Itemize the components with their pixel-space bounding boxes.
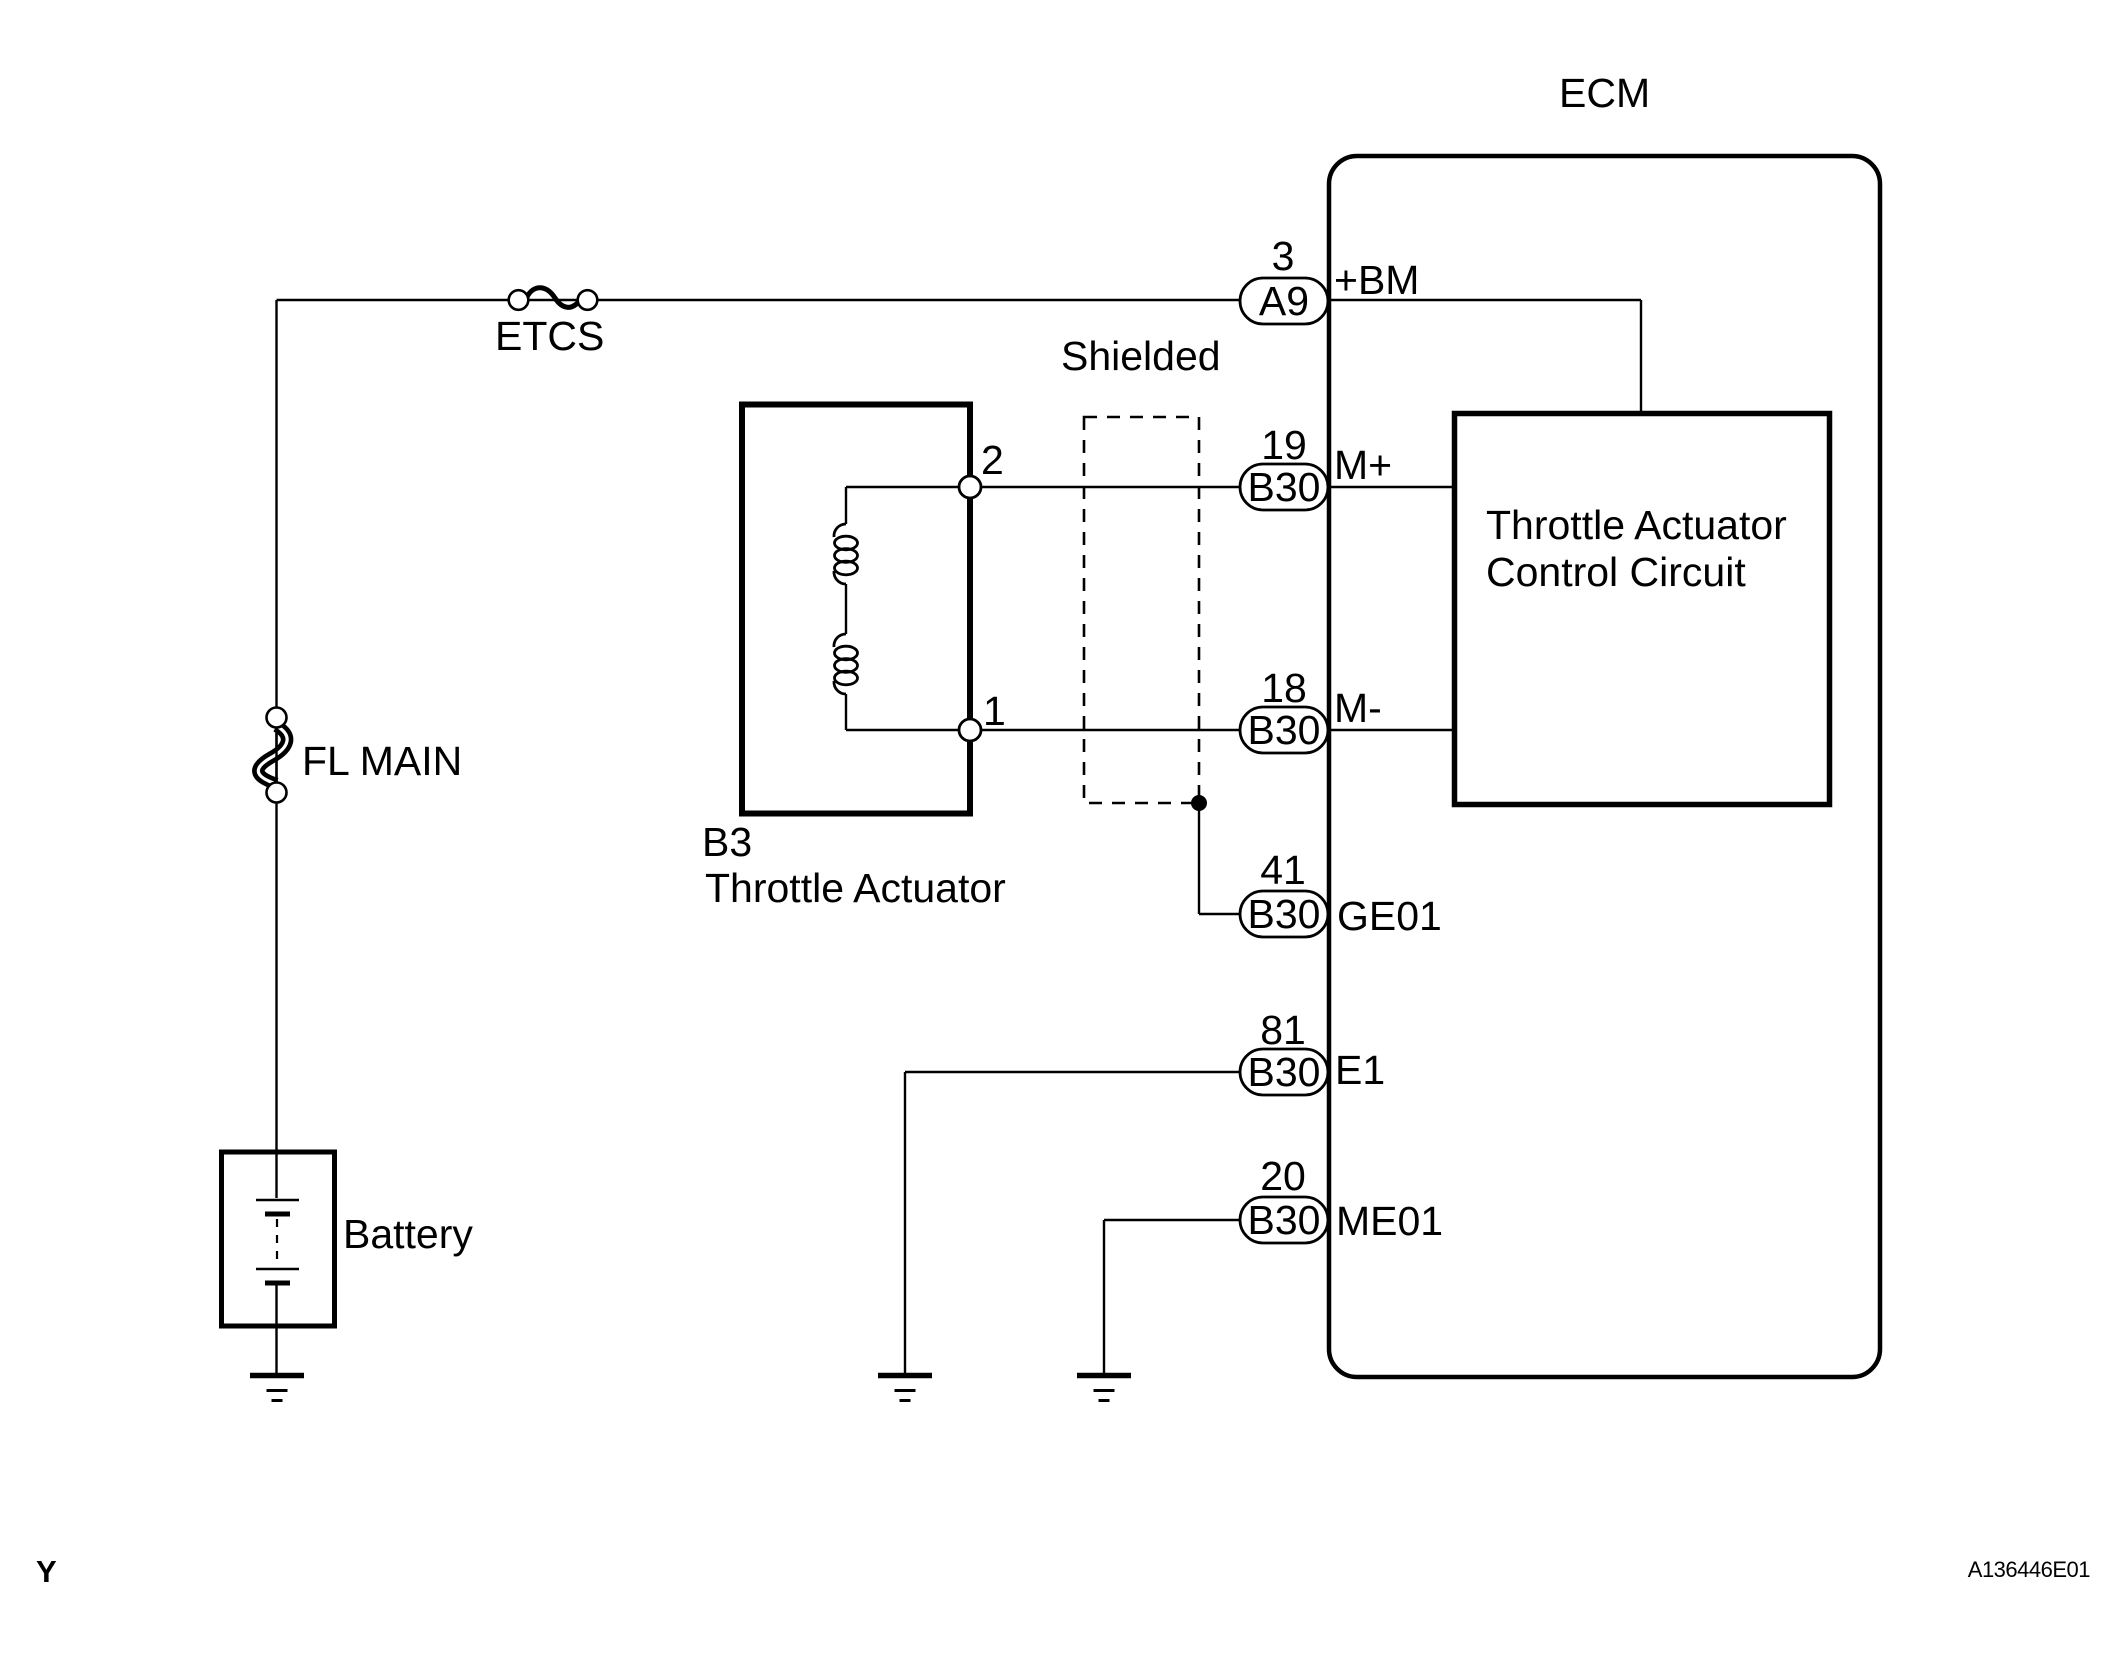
svg-text:B30: B30: [1248, 1049, 1321, 1095]
svg-text:2: 2: [981, 437, 1004, 483]
wire: ME01 to ground: [1104, 1219, 1242, 1221]
ground (battery): [250, 1376, 304, 1401]
wire: between windings: [845, 584, 847, 634]
svg-text:FL MAIN: FL MAIN: [302, 738, 462, 784]
battery BAT: [222, 1152, 474, 1373]
svg-text:20: 20: [1260, 1153, 1306, 1199]
svg-text:Shielded: Shielded: [1061, 333, 1221, 379]
wire: M- internal: [1331, 729, 1455, 731]
svg-text:ETCS: ETCS: [495, 313, 604, 359]
wire: pin1 to connector 18: [970, 729, 1240, 731]
svg-text:Throttle Actuator: Throttle Actuator: [705, 865, 1006, 911]
svg-text:Throttle Actuator: Throttle Actuator: [1486, 502, 1787, 548]
wire: motor winding bottom (pin 1 row): [845, 694, 847, 730]
shielded cable dashed box: [1061, 333, 1221, 803]
inductor L2 (lower winding): [834, 634, 858, 694]
svg-text:B30: B30: [1248, 464, 1321, 510]
connector A9 pin 3 (+BM): [1240, 233, 1419, 324]
svg-text:Control Circuit: Control Circuit: [1486, 549, 1746, 595]
svg-text:Y: Y: [36, 1554, 57, 1589]
wire: M+ internal: [1331, 486, 1455, 488]
svg-text:ME01: ME01: [1336, 1198, 1443, 1244]
connector B30 pin 20 (ME01): [1240, 1153, 1443, 1244]
svg-text:B30: B30: [1248, 707, 1321, 753]
wire: battery positive feed (top horizontal): [277, 299, 1241, 301]
svg-text:Battery: Battery: [343, 1211, 473, 1257]
svg-text:B30: B30: [1248, 891, 1321, 937]
wire: pin2 to connector 19: [970, 486, 1240, 488]
wire: motor winding top (pin 2 row): [846, 486, 970, 488]
ECM box U1: [1329, 156, 1880, 1377]
pin 2 terminal circle: [959, 476, 981, 498]
svg-text:A9: A9: [1259, 278, 1309, 324]
svg-text:M-: M-: [1334, 685, 1382, 731]
svg-text:41: 41: [1260, 847, 1306, 893]
fusible link FL MAIN: [258, 708, 462, 803]
svg-text:3: 3: [1272, 233, 1295, 279]
pin 1 terminal circle: [959, 719, 981, 741]
connector B30 pin 81 (E1): [1240, 1007, 1385, 1095]
svg-text:81: 81: [1260, 1007, 1306, 1053]
ground (E1): [878, 1376, 932, 1401]
svg-text:19: 19: [1261, 422, 1307, 468]
svg-text:18: 18: [1261, 665, 1307, 711]
svg-text:E1: E1: [1335, 1047, 1385, 1093]
svg-text:+BM: +BM: [1334, 257, 1419, 303]
wire: shield drain to GE01: [1198, 803, 1200, 914]
inductor L1 (upper winding): [834, 524, 858, 584]
svg-text:A136446E01: A136446E01: [1968, 1557, 2090, 1582]
svg-text:1: 1: [983, 688, 1006, 734]
wire: left vertical from top wire to battery: [275, 300, 277, 1198]
junction dot (shield to drain wire): [1191, 795, 1207, 811]
ground (ME01): [1077, 1376, 1131, 1401]
Throttle Actuator Control Circuit block: [1455, 414, 1830, 805]
svg-text:M+: M+: [1334, 442, 1392, 488]
B3 throttle actuator box: [702, 405, 1006, 912]
wire: +BM internal to control circuit: [1331, 299, 1641, 301]
svg-text:B3: B3: [702, 819, 752, 865]
svg-text:GE01: GE01: [1337, 893, 1442, 939]
wire: E1 to ground: [905, 1071, 1241, 1073]
fuse ETCS: [495, 288, 604, 359]
connector B30 pin 18 (M-): [1240, 665, 1382, 753]
connector B30 pin 41 (GE01): [1240, 847, 1442, 939]
connector B30 pin 19 (M+): [1240, 422, 1392, 510]
svg-text:ECM: ECM: [1559, 70, 1650, 116]
svg-text:B30: B30: [1248, 1197, 1321, 1243]
